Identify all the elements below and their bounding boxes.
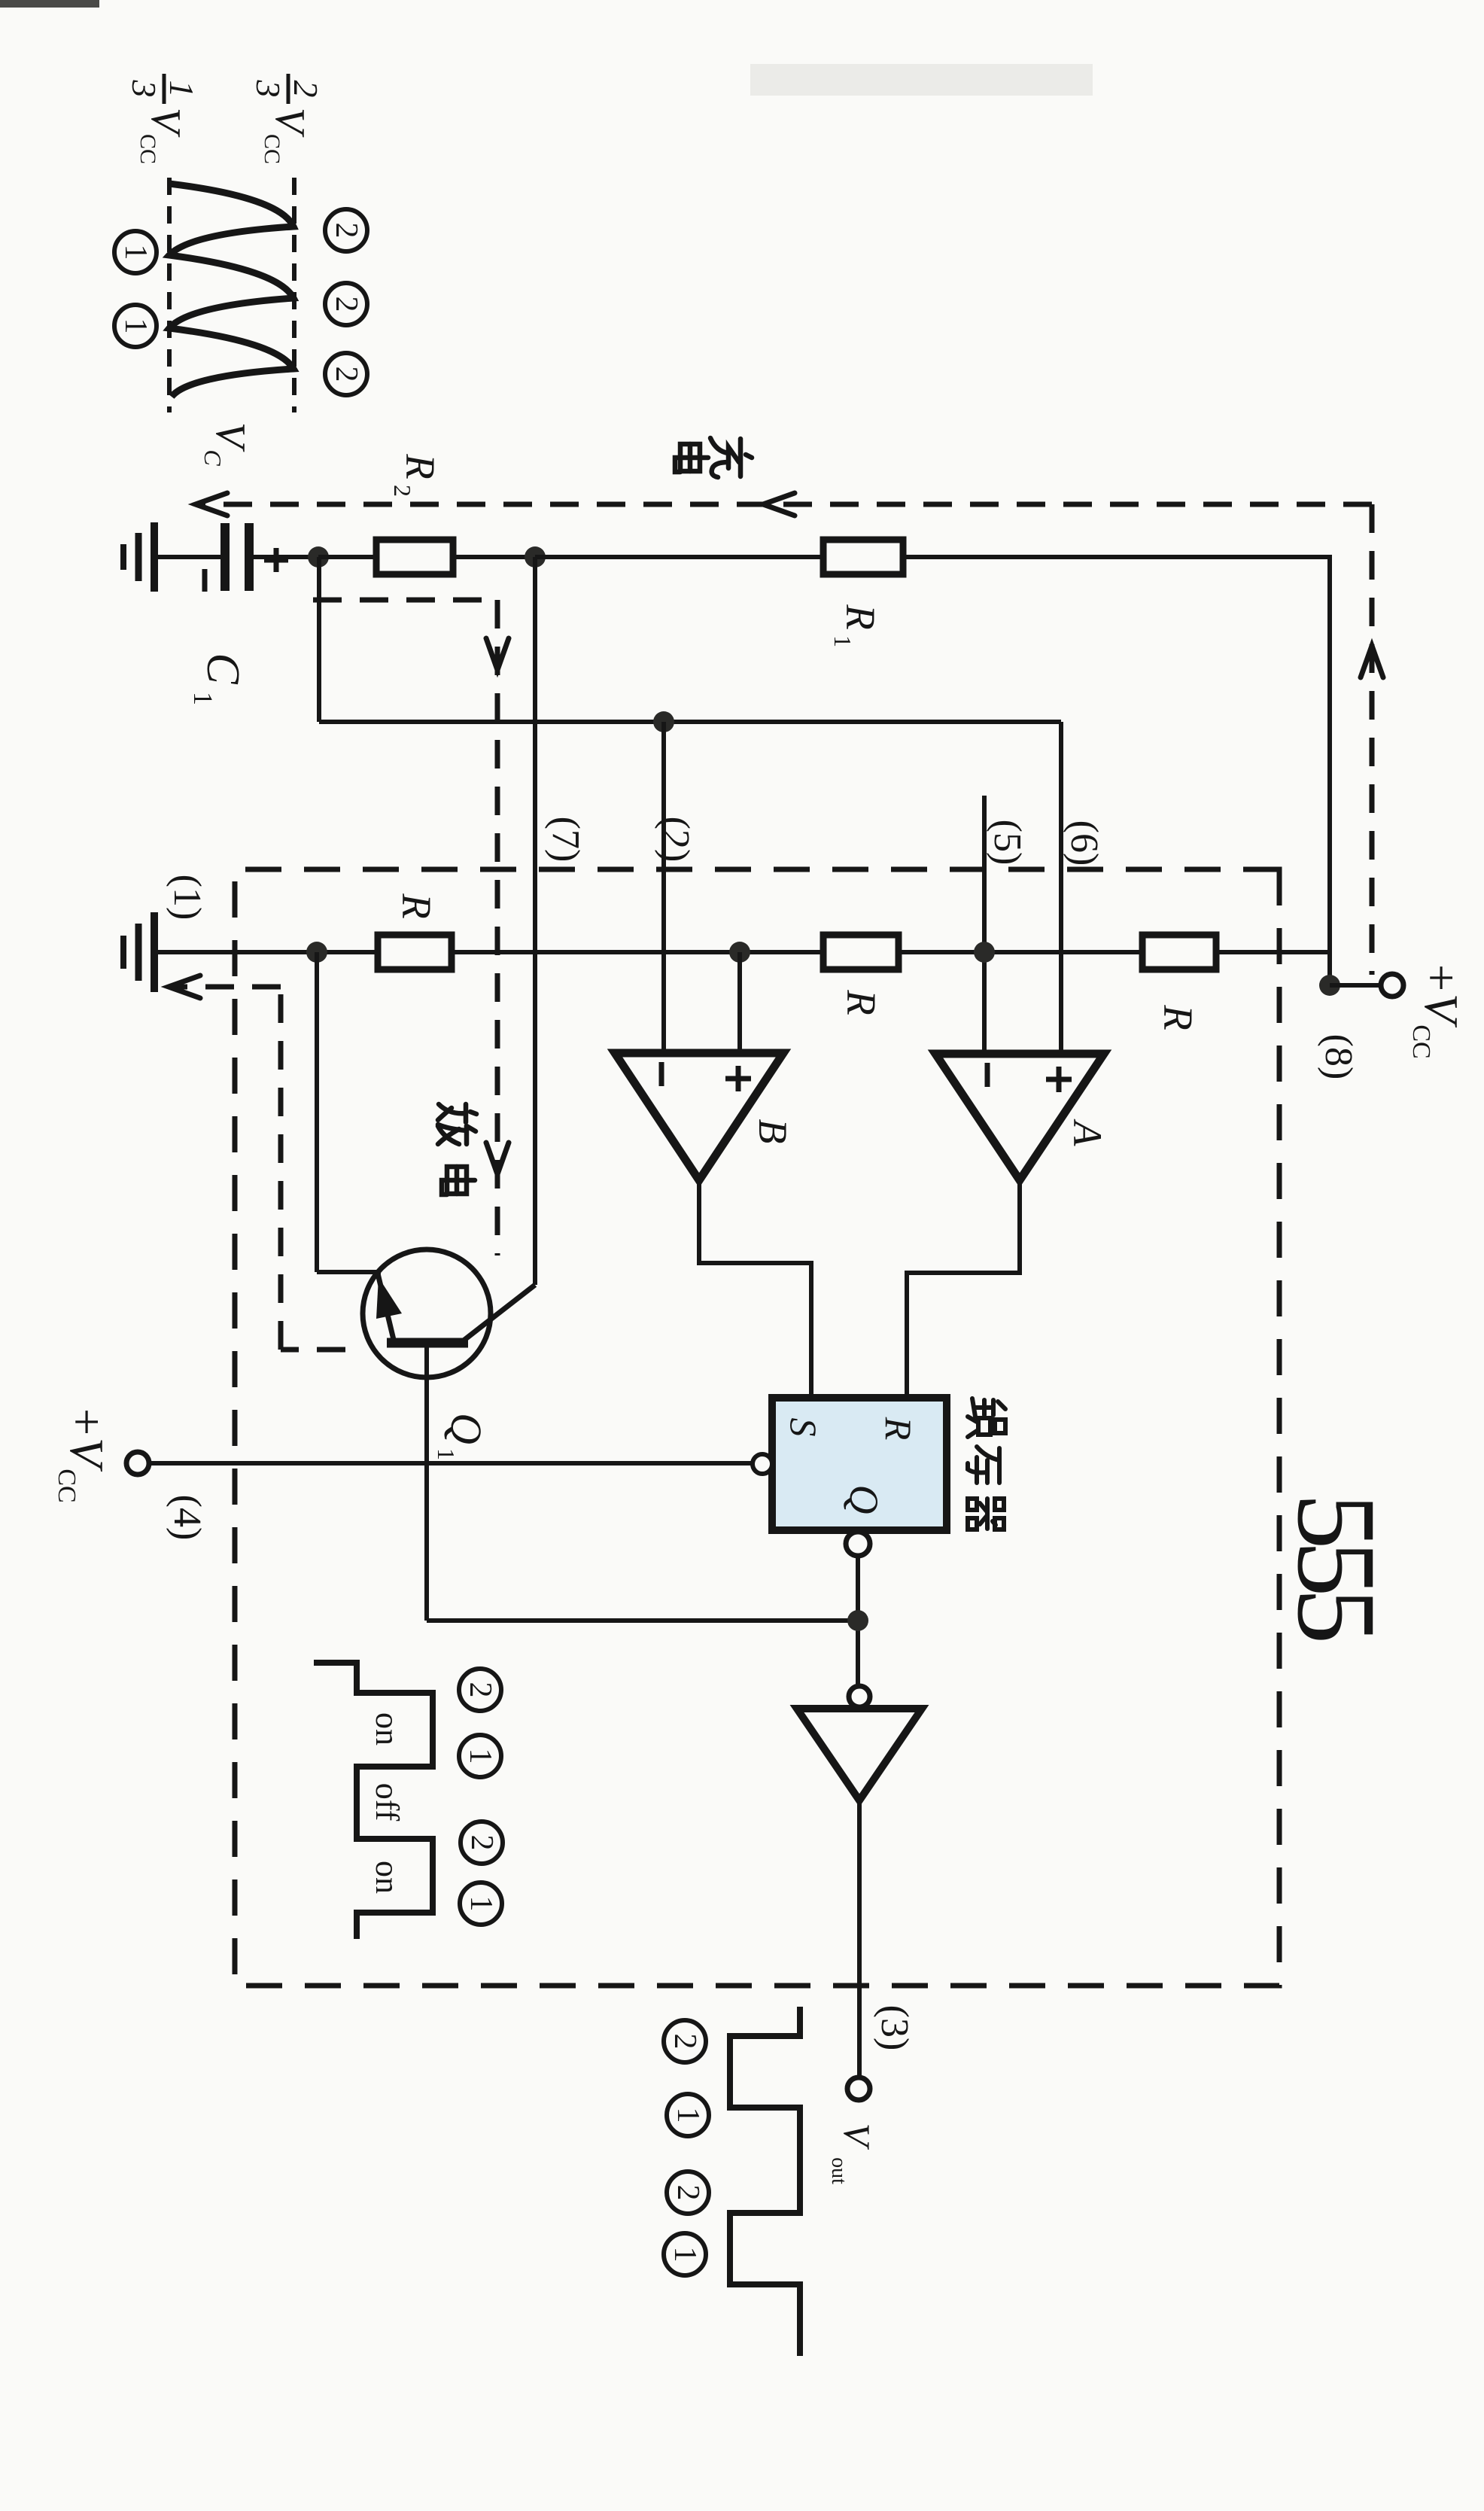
svg-text:on: on — [369, 1861, 406, 1894]
svg-text:(3): (3) — [873, 2005, 916, 2051]
node divider x pin5 (2/3 Vcc tap) — [974, 942, 995, 963]
svg-text:1: 1 — [829, 635, 856, 647]
Vc chart: 2/3Vcc dashed threshold line — [292, 178, 296, 412]
wire R1 to Vcc rail corner — [903, 555, 1330, 559]
svg-text:1: 1 — [671, 2108, 705, 2123]
svg-text:C: C — [199, 449, 227, 466]
pin 5 stub wire to comparator A minus — [982, 796, 987, 1054]
+Vcc rail (top) — [1327, 555, 1332, 985]
wire Q bubble to node — [856, 1556, 860, 1686]
svg-text:CC: CC — [53, 1469, 81, 1502]
node on trunk (pin 2 tap) — [653, 711, 674, 732]
svg-text:1: 1 — [118, 318, 153, 334]
circled 1 (on/off) #1 — [459, 1735, 501, 1777]
svg-text:2: 2 — [671, 2185, 705, 2201]
555 IC dashed boundary box — [235, 869, 1279, 1986]
Vout square waveform — [730, 2007, 800, 2356]
charging path arrow (down, tip near C1/gnd) — [196, 493, 227, 516]
+Vcc terminal (pin 8) — [1381, 974, 1403, 997]
wire 1/3 tap to comparator B plus — [737, 952, 742, 1053]
svg-text:R: R — [877, 1417, 920, 1441]
node divider 1/3 Vcc tap — [729, 942, 750, 963]
circled 2 label #1 (charge phase) above chart — [325, 209, 367, 251]
svg-text:V: V — [836, 2123, 878, 2150]
comparator A output wire to latch R — [907, 1180, 1020, 1398]
Q1 base bar — [387, 1338, 468, 1348]
trunk vertical wire (pins 2/6) — [319, 720, 1061, 724]
node 8 on rail — [1319, 975, 1340, 996]
comparator B output wire to latch S — [699, 1180, 811, 1398]
circled 2 (on/off) #2 — [461, 1822, 503, 1864]
label 锁存器 — [968, 1399, 1005, 1437]
node divider to Q1 emitter — [306, 942, 327, 963]
pin 4 wire — [149, 1461, 753, 1466]
svg-text:2: 2 — [329, 223, 363, 239]
circled 1 (on/off) #2 — [460, 1882, 502, 1925]
resistor R1 — [823, 540, 903, 574]
Q1 base wire to output node — [424, 1343, 429, 1621]
svg-text:R: R — [397, 453, 443, 479]
circled 1 (Vout) #1 — [667, 2094, 709, 2136]
svg-text:V: V — [266, 108, 313, 138]
node 7 junction — [525, 546, 546, 568]
charging current dashed path: top horizontal — [1370, 504, 1375, 975]
divider resistor R bottom — [378, 935, 452, 969]
wire C1 top to node A — [249, 555, 318, 559]
svg-text:V: V — [142, 108, 189, 138]
op-amp comparator A — [935, 1054, 1104, 1180]
svg-text:(6): (6) — [1063, 820, 1105, 866]
latch Q output bubble — [846, 1532, 870, 1556]
ground (below C1) — [154, 555, 220, 559]
svg-text:CC: CC — [135, 134, 160, 164]
node A (C1 / R2 / pin2-6 junction) — [308, 546, 329, 568]
wire node A to trunk — [317, 557, 321, 722]
svg-text:2: 2 — [667, 2034, 702, 2050]
discharge dashed path: vertical from node A area — [313, 598, 494, 603]
svg-text:3: 3 — [249, 80, 287, 98]
charging current dashed path: left vertical — [196, 502, 1372, 507]
svg-text:C: C — [197, 653, 248, 684]
svg-text:CC: CC — [260, 134, 284, 164]
svg-text:1: 1 — [163, 81, 201, 98]
wire node 7 to R1 — [535, 555, 823, 559]
pin 3 wire — [857, 1800, 862, 2077]
svg-text:3: 3 — [125, 80, 163, 98]
svg-text:2: 2 — [329, 367, 363, 382]
Vc chart: 1/3Vcc dashed threshold line — [167, 178, 172, 412]
svg-text:1: 1 — [667, 2247, 702, 2263]
svg-text:(5): (5) — [986, 820, 1029, 866]
svg-text:R: R — [838, 604, 883, 630]
circled 2 label #2 above chart — [325, 283, 367, 325]
op-amp comparator B — [615, 1053, 783, 1180]
label charging 电 — [675, 444, 708, 472]
svg-text:(1): (1) — [166, 875, 208, 921]
svg-text:V: V — [207, 422, 254, 452]
Q1 emitter arm with arrow — [378, 1274, 394, 1343]
latch reset bubble (pin 4) — [753, 1454, 772, 1474]
discharge dashed path: horizontal to Q1 collector — [495, 600, 500, 1255]
svg-text:Q: Q — [841, 1485, 886, 1514]
divider ground (pin 1) — [151, 912, 158, 992]
svg-text:2: 2 — [329, 297, 363, 312]
svg-text:off: off — [369, 1783, 406, 1822]
svg-text:on: on — [369, 1712, 406, 1746]
charging path arrow (leftwards) — [1361, 646, 1383, 677]
svg-text:1: 1 — [433, 1448, 460, 1460]
circled 2 label #3 above chart — [325, 353, 367, 395]
discharge arrow (right, near start) — [486, 638, 509, 670]
svg-text:B: B — [750, 1119, 795, 1144]
output node — [847, 1610, 868, 1631]
circled 1 (Vout) #2 — [664, 2233, 706, 2275]
discharge arrow (right, near Q1) — [486, 1143, 509, 1174]
svg-text:Q: Q — [442, 1413, 491, 1444]
discharge return dashed: horizontal — [278, 987, 284, 1350]
svg-text:R: R — [838, 989, 884, 1015]
pin 7 wire to Q1 collector — [533, 557, 537, 1285]
svg-text:CC: CC — [1407, 1024, 1435, 1058]
circled 2 (Vout) #2 — [667, 2172, 709, 2214]
wire R2 to node 7 — [453, 555, 535, 559]
wire node A to R2 — [318, 555, 376, 559]
transistor Q1 circle — [363, 1249, 491, 1377]
circled 2 (on/off) #1 — [459, 1669, 501, 1711]
Vout terminal (pin 3) — [847, 2077, 870, 2100]
charging path arrow (down, mid) — [763, 493, 795, 516]
inverter input bubble — [849, 1686, 870, 1707]
svg-text:(7): (7) — [544, 817, 587, 863]
discharge return dashed: down to ground with arrow — [169, 985, 281, 990]
pin8 stub to +Vcc terminal — [1330, 983, 1381, 988]
svg-text:+V: +V — [60, 1405, 114, 1472]
svg-text:1: 1 — [463, 1749, 497, 1764]
label charging 充 — [710, 438, 752, 477]
divider vertical wire — [154, 950, 1330, 954]
svg-text:(8): (8) — [1317, 1034, 1360, 1080]
svg-text:out: out — [827, 2157, 850, 2184]
svg-text:2: 2 — [464, 1835, 499, 1851]
svg-text:555: 555 — [1274, 1493, 1399, 1641]
svg-text:1: 1 — [118, 245, 153, 260]
circled 2 (Vout) #1 — [664, 2020, 706, 2062]
wire divider node to Q1 emitter — [315, 952, 319, 1272]
Q1 collector arm — [461, 1285, 535, 1343]
svg-text:2: 2 — [287, 81, 325, 98]
capacitor C1 — [245, 523, 254, 591]
divider resistor R middle — [823, 935, 899, 969]
divider resistor R top — [1142, 935, 1216, 969]
svg-text:2: 2 — [463, 1682, 497, 1698]
svg-text:(2): (2) — [654, 817, 697, 863]
inverter (output buffer) — [797, 1709, 922, 1800]
discharge return dashed: below Q1 — [281, 1347, 345, 1353]
label discharge 放 — [438, 1104, 476, 1144]
svg-text:R: R — [1155, 1004, 1201, 1030]
svg-text:2: 2 — [389, 485, 416, 497]
svg-text:A: A — [1065, 1119, 1110, 1147]
svg-text:1: 1 — [188, 692, 218, 705]
scan page edge artifact — [0, 0, 99, 8]
latch box 锁存器 — [772, 1398, 947, 1530]
svg-text:R: R — [394, 893, 439, 919]
Q1 on/off waveform — [314, 1663, 433, 1939]
circled 1 label #2 below chart — [114, 305, 157, 347]
Vc capacitor-voltage sawtooth curve — [169, 184, 293, 397]
resistor R2 — [376, 540, 453, 574]
faint scan smudge — [750, 64, 1093, 96]
svg-text:S: S — [783, 1418, 825, 1437]
pin 6 wire — [1059, 722, 1063, 1054]
pin 2 wire to comparator B minus — [661, 722, 666, 1053]
svg-text:+V: +V — [1415, 961, 1468, 1028]
circled 1 label #1 (discharge phase) below chart — [114, 231, 157, 273]
+Vcc terminal (pin 4) — [126, 1452, 149, 1475]
svg-text:(4): (4) — [166, 1495, 208, 1541]
label discharge 电 — [442, 1167, 475, 1195]
svg-text:1: 1 — [464, 1896, 498, 1912]
